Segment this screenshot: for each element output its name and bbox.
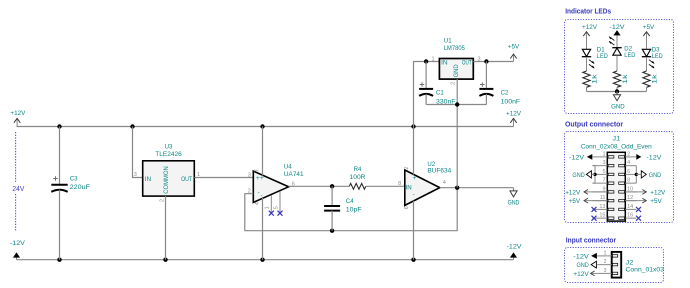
svg-text:+12V: +12V (565, 189, 580, 196)
svg-text:Output connector: Output connector (565, 122, 623, 129)
svg-text:GND: GND (572, 172, 584, 179)
svg-text:5: 5 (273, 206, 279, 209)
svg-text:+12V: +12V (10, 110, 25, 117)
svg-text:U1: U1 (444, 37, 452, 44)
svg-text:7: 7 (254, 169, 260, 172)
connector J1 pin numbers (599, 151, 633, 218)
section box Input connector (565, 248, 664, 283)
capacitor C4 (324, 186, 361, 230)
resistor 1k (D1) (583, 71, 598, 87)
wire R to bus (D2) (616, 87, 618, 91)
svg-text:Conn_01x03: Conn_01x03 (626, 267, 665, 274)
capacitor C2 (479, 62, 520, 106)
svg-text:TLE2426: TLE2426 (155, 151, 182, 158)
svg-text:+5V: +5V (643, 24, 655, 31)
connector J2 reference (626, 259, 665, 273)
resistor 1k (D3) (643, 71, 658, 87)
no-connect U4 pin1 (269, 195, 274, 216)
svg-text:COMMON: COMMON (163, 166, 170, 194)
junction U2 output / GND net (455, 186, 459, 190)
svg-text:LED: LED (652, 53, 663, 60)
svg-text:2: 2 (603, 259, 606, 265)
svg-text:13: 13 (599, 204, 605, 210)
svg-text:+5V: +5V (650, 198, 662, 205)
no-connect pin13 (592, 207, 597, 212)
junction GND right (635, 173, 638, 176)
svg-text:Indicator LEDs: Indicator LEDs (565, 9, 611, 16)
wire U1 GND pin down to output node (456, 79, 458, 188)
section box Indicator LEDs (565, 20, 674, 114)
junction bottom rail / C3 (57, 258, 61, 262)
wire U4 -input feedback (245, 188, 457, 231)
svg-text:+: + (413, 175, 417, 182)
junction C1-C2 bus / U1 GND (455, 102, 459, 106)
svg-text:LM7805: LM7805 (444, 45, 465, 52)
section title Indicator LEDs (565, 9, 611, 16)
wire R to bus (D3) (646, 87, 648, 91)
ground symbol GND (right) (508, 188, 520, 207)
junction bottom rail / U2 V- (411, 258, 415, 262)
junction top rail / C3 (57, 124, 61, 128)
wire R to bus (D1) (586, 87, 588, 91)
capacitor C1 (419, 62, 455, 106)
wire +12V rail up to U1 IN (414, 62, 440, 127)
svg-text:1: 1 (603, 250, 606, 256)
svg-text:UA741: UA741 (284, 171, 304, 178)
svg-text:C2: C2 (501, 90, 509, 97)
svg-text:2: 2 (627, 151, 630, 157)
wire U4 output to R4 node (289, 185, 350, 187)
wire U2 V- pin6 to -12V rail (413, 201, 415, 260)
svg-text:+5V: +5V (569, 198, 581, 205)
connector J1 pin stubs (593, 157, 637, 218)
connector J1 reference (581, 135, 652, 150)
svg-text:U4: U4 (284, 164, 292, 171)
svg-text:2: 2 (404, 167, 410, 170)
power flag +12V (left) (10, 110, 25, 126)
LED D1 (582, 47, 608, 69)
svg-text:-12V: -12V (507, 244, 522, 251)
wire U2 output to GND (440, 187, 514, 189)
svg-text:4: 4 (443, 180, 446, 186)
svg-text:16: 16 (627, 213, 633, 219)
wire -12V bottom rail (17, 259, 514, 261)
svg-text:R4: R4 (354, 166, 362, 173)
wire D1 to R (D1) (586, 58, 588, 71)
svg-text:+12V: +12V (650, 189, 665, 196)
regulator U1 LM7805 (431, 37, 480, 85)
svg-text:+5V: +5V (508, 44, 520, 51)
junction GND left (593, 173, 596, 176)
svg-text:GND: GND (508, 200, 520, 207)
label +5V pin12 (625, 198, 662, 205)
label +12V pin10 (625, 189, 665, 196)
svg-text:LED: LED (624, 52, 635, 59)
svg-text:J1: J1 (612, 135, 620, 142)
svg-text:2: 2 (159, 199, 165, 202)
power flag -12V (D2) (610, 24, 625, 47)
wire U3 COMMON to -12V rail (165, 196, 167, 260)
svg-text:-12V: -12V (569, 154, 584, 161)
power flag -12V (left) (10, 240, 25, 260)
svg-text:8: 8 (398, 181, 401, 187)
svg-text:LED: LED (597, 53, 608, 60)
svg-text:1: 1 (265, 206, 271, 209)
label GND pin6 (636, 171, 661, 179)
junction LED bus / GND (615, 89, 619, 93)
label +12V pin9 (565, 189, 607, 196)
svg-text:14: 14 (627, 204, 633, 210)
svg-text:+12V: +12V (573, 271, 589, 278)
wire C1 to C2 ground bus (426, 104, 486, 106)
svg-text:+12V: +12V (506, 110, 521, 117)
svg-text:-: - (413, 192, 415, 199)
svg-text:10pF: 10pF (346, 206, 362, 213)
svg-text:3: 3 (602, 160, 605, 166)
svg-text:6: 6 (404, 206, 410, 209)
wire U1 OUT to +5V (473, 61, 513, 63)
power flag +12V (D1) (582, 24, 597, 49)
svg-text:-12V: -12V (610, 24, 625, 31)
svg-text:OUT: OUT (462, 60, 472, 67)
no-connect pin16 (636, 216, 641, 221)
svg-text:OUT: OUT (181, 176, 192, 183)
ground symbol GND (LED box) (611, 92, 625, 111)
svg-text:4: 4 (627, 160, 630, 166)
svg-text:IN: IN (406, 184, 412, 191)
svg-text:GND: GND (611, 104, 625, 111)
LED D3 (642, 47, 663, 69)
svg-text:U3: U3 (165, 144, 173, 151)
svg-text:7: 7 (602, 178, 605, 184)
svg-text:IN: IN (441, 60, 448, 67)
svg-text:1: 1 (431, 56, 434, 62)
label +12V J2 pin3 (573, 271, 597, 278)
LED D2 (609, 36, 636, 58)
buffer U2 BUF634 (404, 161, 451, 209)
svg-text:1k: 1k (591, 74, 598, 84)
wire U4 V- pin4 to -12V rail (262, 198, 264, 260)
power flag +5V (508, 44, 520, 62)
svg-text:1k: 1k (622, 74, 629, 84)
no-connect pin14 (636, 207, 641, 212)
wire GND bracket left (pins 3-5-7) (593, 166, 596, 184)
svg-text:Input connector: Input connector (566, 238, 617, 245)
svg-text:3: 3 (134, 172, 137, 178)
junction U1 OUT / C2 (484, 59, 488, 63)
svg-text:6: 6 (627, 169, 630, 175)
wire U4 V+ pin7 from +12V rail (262, 127, 264, 176)
svg-text:-12V: -12V (10, 240, 25, 247)
svg-text:220uF: 220uF (70, 184, 90, 191)
label -12V pin1 (569, 154, 592, 161)
label -12V pin2 (636, 154, 662, 161)
svg-text:5: 5 (602, 169, 605, 175)
junction top rail / U2 V+ (411, 124, 415, 128)
annotation 24V span line (12, 132, 24, 232)
junction feedback / C4 bottom (330, 229, 334, 233)
power flag -12V (right) (507, 244, 522, 260)
svg-text:3: 3 (248, 172, 251, 178)
label +5V pin11 (569, 198, 608, 205)
section box Output connector (565, 132, 674, 223)
power flag +5V (D3) (643, 24, 655, 49)
wire U3 IN from +12V rail (133, 127, 143, 178)
svg-text:1: 1 (602, 151, 605, 157)
svg-text:IN: IN (145, 176, 151, 183)
resistor 1k (D2) (613, 71, 628, 87)
svg-text:3: 3 (603, 268, 606, 274)
wire D3 to R (D3) (646, 58, 648, 71)
svg-text:GND: GND (577, 262, 589, 269)
section title Input connector (566, 238, 617, 245)
wire D2 to R (D2) (616, 55, 618, 71)
svg-text:100R: 100R (350, 174, 366, 181)
svg-text:4: 4 (254, 202, 260, 205)
capacitor C3 (51, 127, 90, 260)
svg-text:+: + (260, 175, 264, 182)
svg-text:C1: C1 (436, 90, 444, 97)
connector J1 body (607, 152, 625, 221)
svg-text:-12V: -12V (646, 154, 661, 161)
svg-text:-12V: -12V (573, 253, 589, 260)
regulator U3 TLE2426 (134, 144, 200, 202)
wire LED common bus (587, 91, 647, 93)
svg-text:J2: J2 (626, 259, 634, 266)
no-connect U4 pin5 (278, 191, 283, 216)
svg-text:-: - (258, 190, 260, 197)
label GND pin5 (572, 171, 595, 179)
svg-text:8: 8 (627, 178, 630, 184)
no-connect pin15 (592, 216, 597, 221)
wire GND bracket right (pins 4-6-8) (635, 166, 637, 184)
svg-text:BUF634: BUF634 (427, 168, 451, 175)
resistor R4 (349, 166, 405, 189)
connector J2 pin numbers (603, 250, 606, 273)
junction bottom rail / U4 V- (260, 258, 264, 262)
power flag +12V (right) (506, 110, 521, 126)
junction top rail / U4 V+ (260, 124, 264, 128)
connector J2 body (612, 252, 622, 278)
junction U4 output / C4 top (330, 184, 334, 188)
wire U3 OUT to U4 +input (194, 177, 253, 179)
svg-text:100nF: 100nF (501, 98, 520, 105)
junction top rail / U3 IN drop (130, 124, 134, 128)
svg-text:24V: 24V (12, 186, 24, 193)
section title Output connector (565, 122, 623, 129)
svg-text:+12V: +12V (582, 24, 597, 31)
svg-text:GND: GND (453, 64, 460, 77)
svg-text:C3: C3 (70, 176, 78, 183)
svg-text:Conn_02x08_Odd_Even: Conn_02x08_Odd_Even (581, 143, 652, 150)
op-amp U4 UA741 (248, 164, 304, 210)
connector J2 pin stubs (597, 256, 612, 274)
svg-text:C4: C4 (346, 198, 354, 205)
junction bottom rail / U3 COMMON (163, 258, 167, 262)
wire +12V top rail (17, 126, 514, 128)
label -12V J2 pin1 (573, 253, 597, 261)
svg-text:GND: GND (649, 172, 661, 179)
wire U2 V+ pin2 from +12V rail (413, 127, 415, 175)
svg-text:15: 15 (599, 213, 605, 219)
label GND J2 pin2 (577, 261, 597, 269)
svg-text:1k: 1k (651, 74, 658, 84)
svg-text:2: 2 (450, 82, 456, 85)
junction U1 IN / C1 (424, 59, 428, 63)
